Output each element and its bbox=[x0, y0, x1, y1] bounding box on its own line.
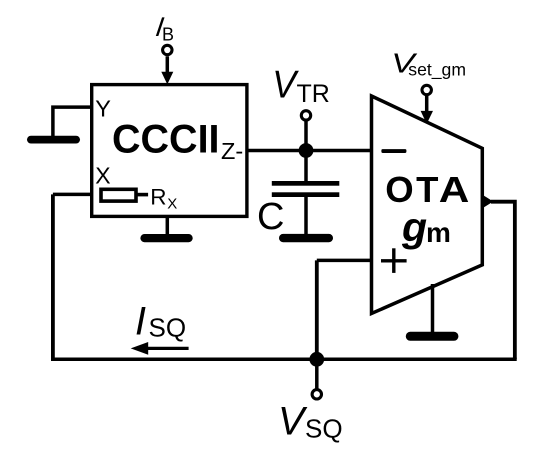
terminal VSQ bbox=[312, 390, 321, 399]
wire resistor stub bbox=[137, 193, 148, 197]
svg-text:V: V bbox=[278, 399, 308, 443]
svg-text:C: C bbox=[257, 196, 284, 238]
CCCII block U1 bbox=[92, 85, 247, 217]
terminal Vset_gm bbox=[422, 85, 431, 94]
terminal IB bbox=[163, 45, 172, 54]
wire left vertical feedback bbox=[51, 194, 55, 359]
wire Vset_gm bbox=[425, 96, 429, 112]
node junction VSQ bbox=[309, 352, 324, 367]
svg-text:Z-: Z- bbox=[221, 138, 243, 164]
ground (capacitor) bbox=[279, 234, 333, 242]
OTA U2 body bbox=[372, 96, 483, 314]
svg-text:V: V bbox=[272, 62, 299, 105]
svg-text:m: m bbox=[426, 217, 451, 248]
svg-text:A: A bbox=[439, 170, 470, 211]
node junction VTR bbox=[299, 143, 314, 158]
svg-text:Y: Y bbox=[95, 96, 111, 122]
svg-text:g: g bbox=[401, 204, 427, 250]
arrowhead IB into box bbox=[161, 72, 173, 85]
ground (OTA) bbox=[406, 332, 459, 341]
svg-text:R: R bbox=[150, 185, 166, 210]
arrowhead Vset_gm into OTA bbox=[421, 111, 433, 124]
wire capacitor to ground bbox=[304, 196, 308, 236]
capacitor C top plate bbox=[272, 181, 340, 186]
OTA output arrowhead bbox=[484, 196, 493, 208]
wire plus input down to rail bbox=[315, 260, 319, 359]
svg-text:X: X bbox=[95, 163, 110, 189]
wire CCCII ground bbox=[166, 216, 170, 237]
wire VTR terminal bbox=[304, 121, 308, 151]
svg-text:set_gm: set_gm bbox=[408, 59, 466, 80]
wire junction to capacitor bbox=[304, 151, 308, 183]
wire IB bbox=[166, 56, 170, 73]
wire Z- to OTA minus input bbox=[246, 149, 372, 153]
ground (Y input) bbox=[27, 136, 80, 144]
svg-text:CCCII: CCCII bbox=[112, 117, 220, 161]
svg-text:I: I bbox=[135, 300, 146, 344]
svg-text:TR: TR bbox=[297, 80, 330, 108]
wire OTA output feedback bbox=[491, 202, 515, 360]
wire VSQ terminal bbox=[315, 359, 319, 389]
arrow ISQ current direction bbox=[146, 347, 189, 350]
wire bottom rail bbox=[51, 358, 517, 362]
wire OTA ground bbox=[431, 284, 435, 335]
OTA minus input mark bbox=[381, 149, 406, 153]
wire Y-input: box left to ground bbox=[53, 107, 92, 137]
svg-text:X: X bbox=[167, 195, 177, 212]
svg-text:B: B bbox=[162, 25, 174, 45]
terminal VTR bbox=[301, 111, 310, 120]
svg-text:SQ: SQ bbox=[149, 313, 187, 343]
capacitor C bottom plate bbox=[272, 192, 340, 197]
resistor Rx bbox=[101, 189, 136, 201]
ground (CCCII) bbox=[140, 234, 192, 242]
wire OTA plus input bbox=[317, 259, 372, 263]
wire X-input horizontal bbox=[53, 193, 101, 197]
svg-text:SQ: SQ bbox=[305, 414, 343, 444]
OTA plus input mark bbox=[381, 259, 407, 262]
